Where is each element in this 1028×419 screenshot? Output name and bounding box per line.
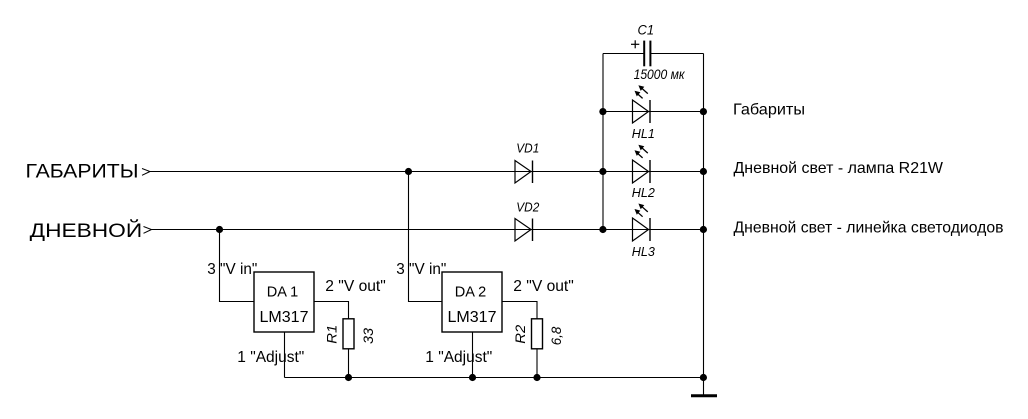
diode VD1 — [515, 161, 533, 184]
svg-text:1 "Adjust": 1 "Adjust" — [237, 349, 304, 366]
wire DA1 Adjust — [284, 332, 286, 378]
wire top rail right — [650, 53, 703, 55]
wire DA1 Vout to R1 — [314, 302, 349, 319]
resistor R2 — [532, 319, 543, 349]
svg-text:LM317: LM317 — [260, 309, 309, 326]
capacitor C1 — [644, 41, 650, 67]
svg-text:HL2: HL2 — [632, 185, 656, 200]
svg-text:2 "V out": 2 "V out" — [513, 278, 574, 295]
svg-text:33: 33 — [360, 328, 376, 344]
svg-text:Габариты: Габариты — [733, 102, 805, 119]
svg-text:Дневной свет - лампа R21W: Дневной свет - лампа R21W — [734, 160, 944, 177]
svg-text:LM317: LM317 — [448, 309, 497, 326]
svg-text:3 "V in": 3 "V in" — [207, 261, 257, 278]
wire DA2 Adjust — [472, 332, 474, 378]
node junction DA2 Adjust bottom — [469, 374, 476, 381]
diode VD2 — [515, 219, 533, 242]
svg-text:6,8: 6,8 — [548, 327, 564, 346]
svg-text:DA 2: DA 2 — [455, 284, 487, 301]
LED HL1 — [633, 85, 651, 123]
svg-text:R1: R1 — [323, 325, 339, 344]
wire R1 bottom — [348, 349, 350, 378]
wire DA2 Vout to R2 — [502, 302, 537, 319]
wire left rail — [602, 54, 604, 230]
svg-text:ДНЕВНОЙ: ДНЕВНОЙ — [30, 218, 143, 242]
LED HL2 — [633, 145, 651, 183]
wire HL1 row — [603, 111, 704, 113]
svg-text:ГАБАРИТЫ: ГАБАРИТЫ — [26, 161, 139, 183]
svg-text:1 "Adjust": 1 "Adjust" — [425, 349, 492, 366]
LED HL3 — [633, 204, 651, 242]
node junction ДНЕВНОЙ to DA1 Vin — [216, 226, 223, 233]
svg-text:DA 1: DA 1 — [267, 284, 299, 301]
regulator DA2 LM317 — [442, 272, 502, 332]
node junction HL2 right — [700, 168, 707, 175]
regulator DA1 LM317 — [254, 272, 314, 332]
svg-text:C1: C1 — [638, 23, 655, 38]
node junction ground — [700, 374, 707, 381]
svg-text:15000 мк: 15000 мк — [634, 67, 686, 82]
wire ГАБАРИТЫ horizontal — [150, 171, 603, 173]
resistor R1 — [343, 319, 354, 349]
wire HL3 row — [603, 229, 704, 231]
wire DA1 Vin — [220, 230, 255, 302]
svg-text:R2: R2 — [512, 324, 528, 343]
wire HL2 row — [603, 171, 704, 173]
input terminal arrow (ДНЕВНОЙ) — [144, 227, 152, 234]
wire right rail — [703, 54, 705, 378]
wire top rail left — [603, 53, 644, 55]
svg-text:2 "V out": 2 "V out" — [325, 278, 386, 295]
svg-text:3 "V in": 3 "V in" — [396, 261, 446, 278]
wire DA2 Vin — [409, 172, 443, 302]
node junction R1 bottom — [345, 374, 352, 381]
input terminal arrow (ГАБАРИТЫ) — [142, 169, 150, 176]
node junction HL1 left — [599, 108, 606, 115]
wire ДНЕВНОЙ horizontal — [152, 229, 604, 231]
node junction HL3 right — [700, 226, 707, 233]
svg-text:VD2: VD2 — [516, 200, 540, 215]
node junction R2 bottom — [533, 374, 540, 381]
wire bottom rail — [285, 377, 704, 379]
wire R2 bottom — [536, 349, 538, 378]
node junction HL2 left — [599, 168, 606, 175]
svg-text:HL1: HL1 — [632, 126, 655, 141]
node junction HL1 right — [700, 108, 707, 115]
node junction HL3 left — [599, 226, 606, 233]
polarity plus (C1) — [631, 40, 639, 48]
svg-text:HL3: HL3 — [632, 244, 656, 259]
svg-text:VD1: VD1 — [516, 141, 539, 156]
ground — [691, 378, 717, 396]
svg-text:Дневной свет - линейка светоди: Дневной свет - линейка светодиодов — [734, 220, 1004, 237]
node junction ГАБАРИТЫ to DA2 Vin — [405, 168, 412, 175]
